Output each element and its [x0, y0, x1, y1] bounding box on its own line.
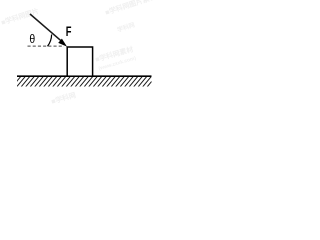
svg-text:θ: θ	[29, 33, 35, 46]
svg-text:F: F	[66, 26, 72, 40]
